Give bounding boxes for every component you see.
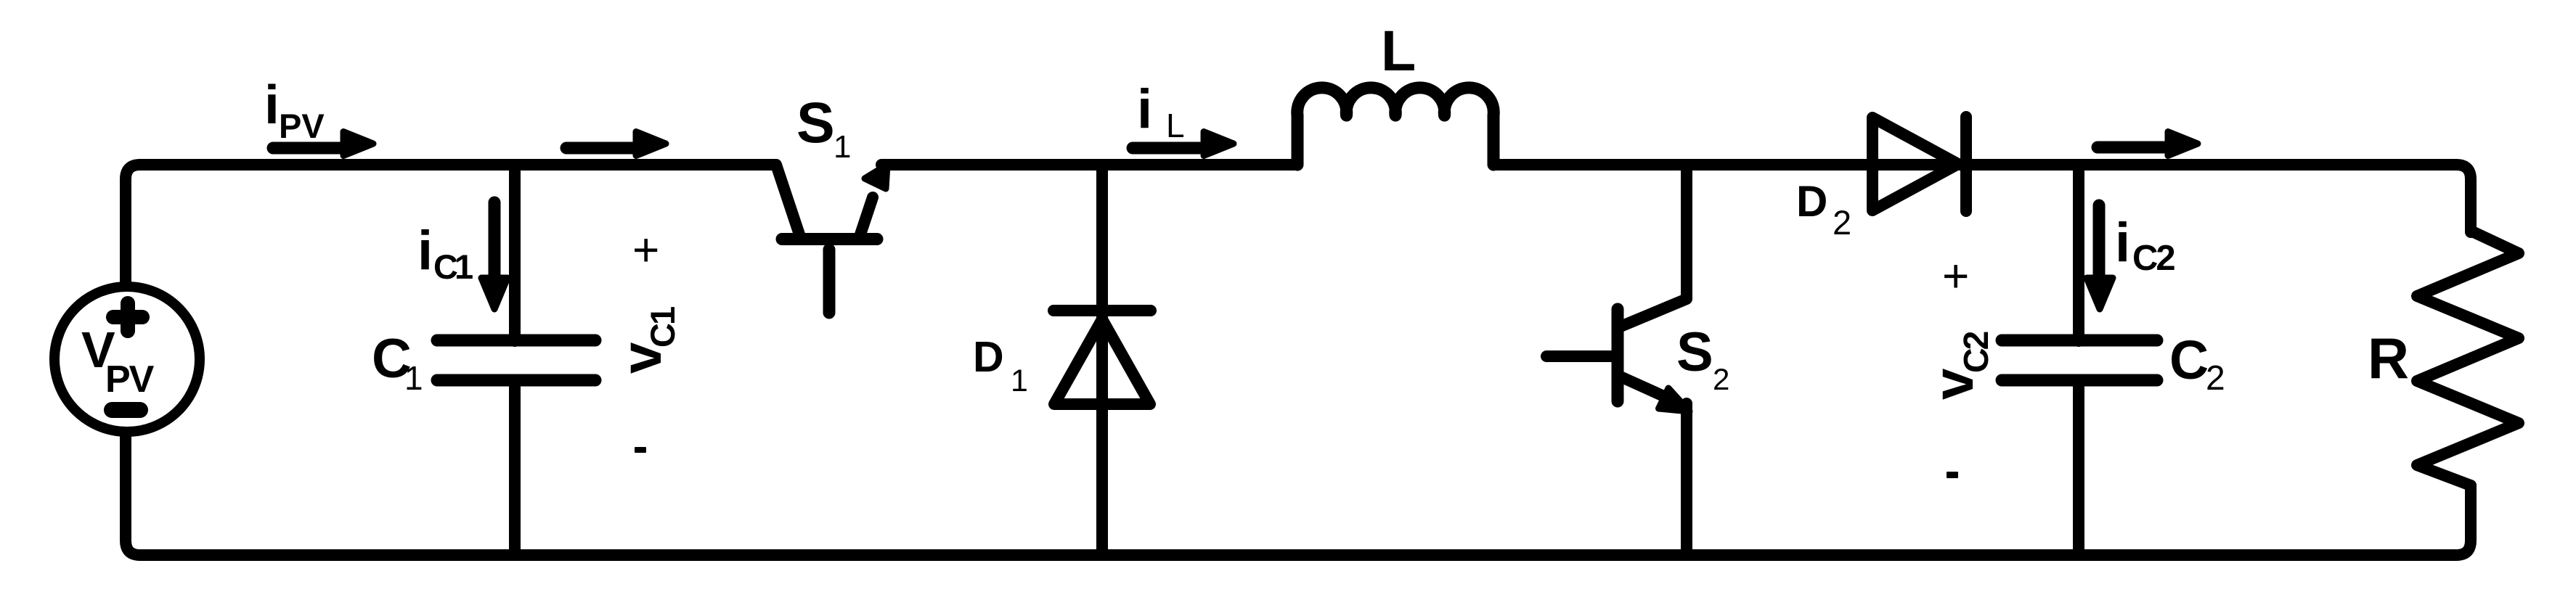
svg-text:i: i (264, 74, 280, 135)
current arrow after C2 shaft (2098, 141, 2164, 154)
capacitor C2 plates (2002, 340, 2157, 380)
svg-text:i: i (2115, 212, 2130, 274)
arrowhead S2 emitter (1659, 388, 1690, 411)
wire main loop: left vertical, top-left segment, bottom wire, right vertical top (126, 165, 2471, 555)
svg-text:i: i (1137, 78, 1152, 140)
svg-text:C1: C1 (643, 307, 682, 348)
resistor R zigzag (2417, 231, 2519, 485)
diode D2 cathode bar (1960, 117, 1972, 211)
diode D2 triangle (1872, 118, 1958, 210)
svg-text:D: D (973, 333, 1004, 381)
diode D1 triangle (1054, 319, 1150, 404)
current arrow i_C2 shaft (2093, 205, 2106, 278)
wire capacitor C1 branch top (509, 165, 521, 341)
svg-text:C2: C2 (2132, 239, 2174, 278)
svg-text:PV: PV (105, 358, 155, 401)
svg-text:i: i (417, 220, 433, 282)
wire arrow after C1 shaft (566, 142, 633, 155)
svg-text:2: 2 (1713, 362, 1729, 396)
svg-text:S: S (796, 90, 835, 155)
capacitor C1 plates (437, 340, 595, 380)
current arrow i_C1 shaft (489, 202, 501, 279)
svg-text:C: C (2169, 329, 2209, 390)
svg-text:1: 1 (833, 129, 851, 165)
voltage source plus sign (106, 310, 150, 324)
svg-text:S: S (1676, 321, 1713, 383)
svg-text:+: + (1942, 250, 1969, 302)
current arrow i_L shaft (1133, 142, 1199, 155)
arrowhead i_C2 (2087, 278, 2113, 309)
svg-text:PV: PV (279, 107, 325, 145)
arrowhead arrow after C1 (636, 132, 666, 156)
transistor S2 base lead (1546, 350, 1616, 362)
voltage source minus sign (104, 402, 148, 418)
transistor S2 collector branch from top wire (1621, 165, 1687, 327)
svg-text:+: + (632, 223, 659, 276)
current arrow i_PV shaft (273, 142, 347, 155)
transistor S2 emitter (1622, 377, 1667, 398)
diode D1 cathode bar (1053, 305, 1151, 316)
arrowhead i_L (1204, 132, 1234, 156)
wire capacitor C2 branch bottom (2073, 380, 2084, 555)
arrowhead i_PV (343, 132, 373, 156)
transistor S1 base stub (823, 250, 836, 313)
svg-text:L: L (1381, 18, 1416, 83)
label v_C1 minus (635, 447, 646, 453)
svg-text:2: 2 (2206, 359, 2225, 398)
transistor S1 bar (782, 233, 877, 245)
transistor S1 collector diagonal (768, 165, 800, 237)
wire diode D1 branch (1096, 165, 1108, 555)
svg-text:C1: C1 (433, 247, 473, 286)
transistor S2 bar (1612, 309, 1624, 401)
label v_C2 minus (1947, 472, 1958, 478)
wire inductor right side to top-right corner (1493, 165, 2471, 232)
wire top segment from S1 emitter to inductor and on to right corner (881, 159, 1297, 171)
arrowhead i_C1 (481, 278, 508, 309)
wire capacitor C1 branch bottom (509, 380, 521, 555)
svg-text:L: L (1166, 107, 1185, 144)
wire S2 emitter to bottom (1681, 403, 1692, 555)
arrowhead arrow after C2 (2168, 132, 2198, 156)
wire capacitor C2 branch top (2073, 165, 2084, 341)
svg-text:1: 1 (1011, 364, 1028, 398)
inductor L (1297, 88, 1494, 165)
arrowhead S1 emitter (865, 165, 887, 189)
svg-text:2: 2 (1833, 203, 1851, 242)
svg-text:C2: C2 (1957, 332, 1996, 373)
svg-text:D: D (1796, 177, 1827, 226)
svg-text:R: R (2368, 326, 2409, 390)
voltage source V_PV circle (54, 287, 200, 432)
svg-text:1: 1 (404, 359, 423, 397)
transistor S1 emitter (860, 197, 873, 237)
